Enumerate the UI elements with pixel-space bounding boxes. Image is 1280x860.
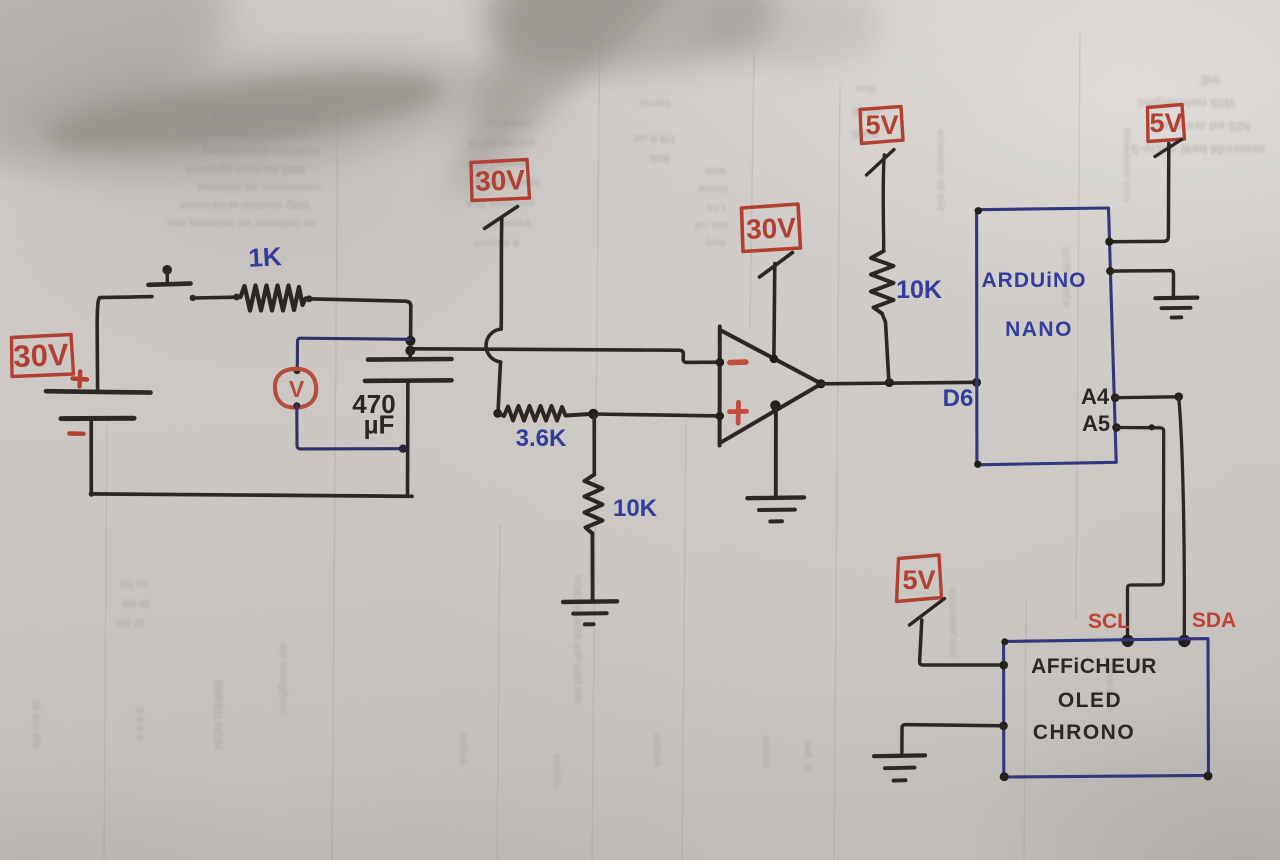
- wire op-amp output to D6: [821, 382, 976, 384]
- supply tick middle: [485, 207, 518, 229]
- resistor R1 right terminal dot: [306, 295, 313, 302]
- resistor R1 1K zigzag: [237, 286, 308, 311]
- junction dot SDA: [1178, 635, 1190, 647]
- junction dot A4 corner: [1174, 392, 1183, 401]
- wire A5 to SCL: [1117, 428, 1164, 639]
- resistor R3 upper lead: [592, 414, 596, 475]
- supply label 5V box OLED: [897, 555, 942, 602]
- junction dot node B: [588, 409, 598, 419]
- ground GND3 bar2: [1162, 306, 1191, 310]
- battery plus sign: [73, 372, 88, 387]
- wire OLED GND to ground: [902, 725, 1004, 754]
- ground GND2 bar3: [770, 519, 782, 523]
- supply label 30V box middle: [471, 160, 530, 201]
- OLED display U3 box: [1004, 639, 1209, 777]
- blue wire voltmeter minus lead: [297, 406, 403, 449]
- ground GND4 bar3: [894, 778, 906, 782]
- node dot at 3.6K left: [493, 409, 502, 418]
- op-amp U1 plus input dot: [715, 412, 724, 421]
- pin dot A4: [1111, 393, 1120, 402]
- wire node B to op-amp plus input: [593, 414, 719, 416]
- wire switch to R1: [193, 295, 237, 299]
- op-amp ground pin dot: [770, 400, 780, 410]
- Arduino corner dot bottom-left: [974, 461, 981, 468]
- op-amp U1 minus input dot: [716, 358, 725, 367]
- resistor R2 3.6K zigzag: [498, 406, 593, 421]
- capacitor C1 top lead: [408, 351, 412, 360]
- resistor R1 left terminal dot: [233, 294, 240, 301]
- pin dot A5: [1112, 423, 1121, 432]
- voltmeter bottom terminal dot: [293, 402, 300, 409]
- Arduino Nano U2 box: [977, 208, 1117, 465]
- resistor R3 10K zigzag vertical: [585, 475, 603, 534]
- op-amp U1 triangle: [720, 327, 822, 446]
- pin dot OLED 5V: [999, 661, 1008, 670]
- ground GND4 bar2: [885, 766, 915, 771]
- switch S1 contact plate: [149, 284, 191, 285]
- capacitor C1 bottom plate: [365, 378, 452, 383]
- junction dot node A upper: [406, 336, 416, 346]
- wire Arduino GND to ground: [1110, 271, 1173, 297]
- blue wire end dot at capacitor lead: [399, 445, 407, 453]
- wire battery- lead: [89, 419, 93, 494]
- wire hop over capacitor wire: [486, 329, 501, 362]
- supply tick pullup: [867, 150, 895, 176]
- capacitor C1 bottom lead: [406, 381, 410, 496]
- junction dot node A lower: [405, 346, 415, 356]
- resistor R4 10K zigzag vertical: [871, 251, 894, 314]
- blue wire voltmeter plus lead: [297, 338, 409, 369]
- ground GND2 bar2: [759, 508, 795, 512]
- supply label 5V box top-right: [1148, 105, 1185, 142]
- ground GND1 bar2: [573, 611, 606, 615]
- ground GND1 bar3: [585, 622, 594, 626]
- resistor R4 lower lead: [882, 314, 889, 383]
- OLED corner dot top-left: [1001, 638, 1008, 645]
- wire A4 to SDA: [1115, 395, 1176, 399]
- supply tick op-amp: [760, 253, 793, 278]
- wire R1 to capacitor junction: [309, 299, 411, 340]
- switch S1 button knob: [162, 265, 172, 275]
- ground GND3 bar3: [1172, 315, 1182, 319]
- wire capacitor junction to op-amp minus input: [411, 349, 720, 363]
- voltmeter top terminal dot: [294, 367, 301, 374]
- wire 5V OLED to box: [920, 620, 1003, 665]
- ground GND4 bar1: [874, 753, 925, 758]
- OLED corner dot bottom-left: [1000, 772, 1009, 781]
- wire 30V supply down to hop: [499, 218, 503, 330]
- battery V1 30V label box: [12, 335, 74, 377]
- ground GND3 bar1: [1155, 296, 1197, 301]
- supply label 30V box op-amp: [742, 204, 801, 252]
- junction dot SCL: [1122, 635, 1134, 647]
- supply label 5V box pullup: [860, 107, 903, 144]
- wire SDA vertical: [1179, 397, 1185, 639]
- op-amp supply dot: [770, 355, 779, 364]
- op-amp U1 minus sign: [730, 359, 746, 365]
- pin dot Arduino 5V: [1105, 238, 1113, 246]
- battery positive plate: [46, 391, 151, 392]
- ground GND1 bar1: [563, 599, 617, 604]
- wire 30V to op-amp top edge: [772, 264, 776, 359]
- pin dot OLED GND: [999, 722, 1008, 731]
- wire 5V top-right to Arduino: [1110, 144, 1169, 242]
- pin dot D6: [972, 378, 981, 387]
- resistor R3 lower lead: [591, 534, 595, 601]
- wire op-amp to ground: [774, 408, 778, 496]
- supply tick top-right: [1155, 140, 1182, 157]
- wire battery+ to switch: [97, 297, 152, 392]
- op-amp U1 output dot: [816, 379, 825, 388]
- op-amp U1 plus sign: [730, 402, 747, 423]
- pin dot Arduino GND: [1106, 267, 1114, 275]
- voltmeter M1 circle: [275, 369, 316, 408]
- battery minus sign: [70, 431, 84, 436]
- ground GND2 bar1: [748, 495, 805, 500]
- OLED corner dot bottom-right: [1204, 772, 1213, 781]
- wire switch right terminal dot: [190, 295, 196, 301]
- wire 5V to R4: [883, 155, 884, 251]
- wire bottom return: [91, 494, 412, 496]
- supply tick OLED: [910, 599, 945, 626]
- battery negative plate: [61, 416, 134, 421]
- wire hop to 3.6K resistor: [498, 362, 501, 413]
- junction dot output node: [885, 378, 894, 387]
- switch S1 button stem: [165, 272, 169, 284]
- capacitor C1 top plate: [368, 357, 452, 362]
- corner dot bottom left: [89, 491, 95, 497]
- Arduino corner dot top-left: [975, 207, 982, 214]
- wire A5 small dot: [1149, 424, 1155, 430]
